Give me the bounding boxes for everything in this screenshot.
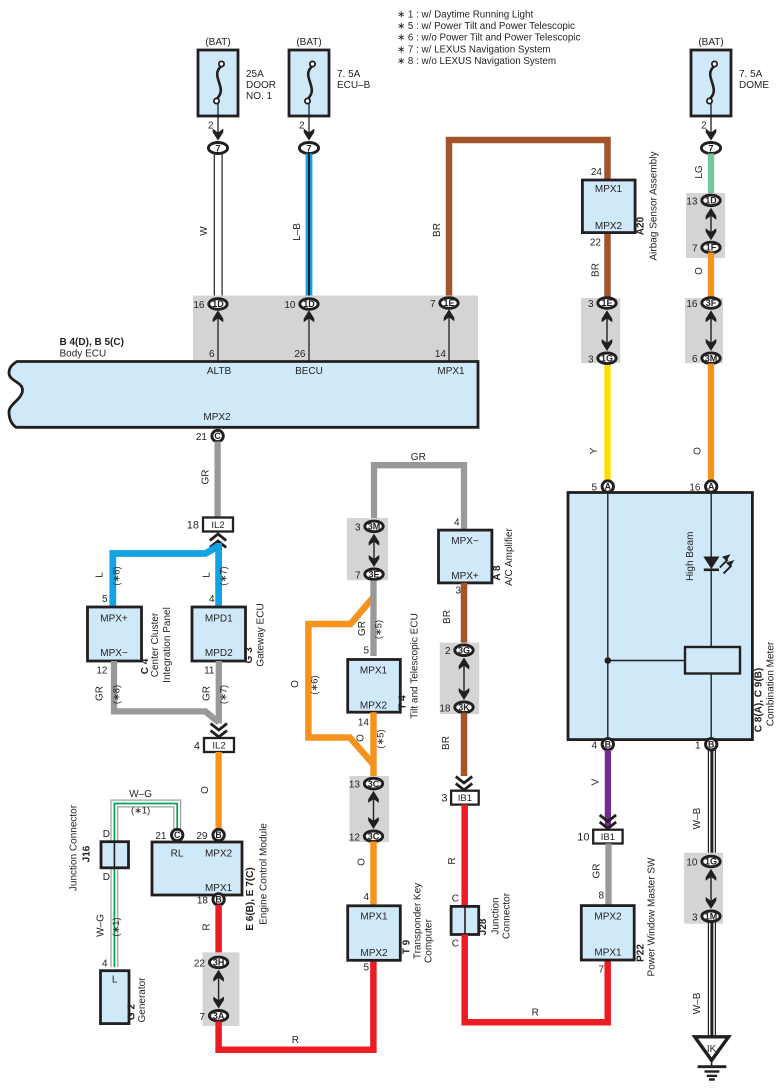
chevron marker into IB1 10 bbox=[600, 822, 616, 829]
svg-text:Junction Connector: Junction Connector bbox=[69, 804, 80, 891]
svg-text:W–B: W–B bbox=[692, 807, 703, 829]
fuse 25A DOOR NO. 1 bbox=[198, 50, 238, 116]
svg-text:3: 3 bbox=[588, 299, 594, 310]
svg-text:C: C bbox=[452, 939, 459, 950]
svg-text:4: 4 bbox=[363, 892, 369, 903]
svg-text:21: 21 bbox=[196, 432, 208, 443]
svg-text:3: 3 bbox=[588, 354, 594, 365]
svg-text:L: L bbox=[202, 572, 213, 578]
svg-text:1F: 1F bbox=[706, 243, 717, 253]
svg-text:W: W bbox=[199, 226, 210, 236]
svg-text:3K: 3K bbox=[458, 703, 470, 713]
svg-text:3M: 3M bbox=[705, 353, 718, 363]
ECU box E6(B) E7(C) Engine Control Module bbox=[172, 829, 183, 840]
ECU box P22 Power Window Master SW bbox=[581, 906, 634, 960]
wire R (ECM MPX1 to connector 3H) bbox=[215, 905, 222, 956]
svg-text:RL: RL bbox=[171, 849, 184, 860]
svg-text:BR: BR bbox=[432, 223, 443, 237]
junction block IB1 pin 3 bbox=[451, 791, 479, 805]
pin 7 connector 1E on Body ECU bbox=[444, 309, 455, 321]
wire LG (fuse DOME to connector 1D) bbox=[708, 154, 714, 199]
svg-text:B: B bbox=[605, 739, 611, 749]
svg-text:3: 3 bbox=[455, 586, 461, 597]
svg-text:Power Window Master SW: Power Window Master SW bbox=[647, 857, 658, 976]
svg-text:L–B: L–B bbox=[292, 223, 303, 241]
svg-text:13: 13 bbox=[686, 196, 698, 207]
svg-text:5: 5 bbox=[102, 594, 108, 605]
svg-text:7: 7 bbox=[708, 143, 713, 153]
wire O (1F to 3F) bbox=[708, 253, 714, 299]
svg-text:22: 22 bbox=[590, 238, 602, 249]
svg-text:∗ 6 : w/o Power Tilt and Power: ∗ 6 : w/o Power Tilt and Power Telescopi… bbox=[397, 33, 580, 44]
svg-text:MPD2: MPD2 bbox=[205, 648, 233, 659]
svg-text:BECU: BECU bbox=[295, 366, 323, 377]
svg-text:18: 18 bbox=[439, 703, 451, 714]
svg-text:Engine Control Module: Engine Control Module bbox=[259, 823, 270, 925]
connector pair 3 1E / 3 1G bbox=[581, 298, 620, 363]
svg-text:1E: 1E bbox=[443, 298, 454, 308]
svg-text:Integration Panel: Integration Panel bbox=[162, 607, 173, 683]
svg-text:C: C bbox=[174, 830, 181, 840]
svg-text:Body ECU: Body ECU bbox=[60, 349, 107, 360]
svg-text:(∗8): (∗8) bbox=[112, 566, 122, 585]
svg-text:1M: 1M bbox=[705, 912, 718, 922]
svg-text:Junction: Junction bbox=[491, 897, 502, 934]
ECU box T9 Transponder Key Computer bbox=[348, 906, 401, 961]
svg-text:7: 7 bbox=[692, 244, 698, 255]
wire GR (Body ECU MPX2 to junction IL2 18) bbox=[214, 442, 220, 518]
svg-text:21: 21 bbox=[155, 831, 167, 842]
wire R (3A to T9 MPX2) bbox=[219, 957, 374, 1050]
svg-text:C: C bbox=[452, 894, 459, 905]
svg-text:8: 8 bbox=[598, 891, 604, 902]
svg-text:Computer: Computer bbox=[424, 918, 435, 963]
svg-text:ECU–B: ECU–B bbox=[337, 80, 371, 91]
svg-text:A: A bbox=[708, 482, 715, 492]
pin 1 B of Combination Meter bbox=[706, 739, 717, 750]
svg-text:4: 4 bbox=[454, 518, 460, 529]
svg-text:(∗7): (∗7) bbox=[218, 685, 228, 704]
chevron marker into IL2 18 bbox=[210, 534, 226, 541]
svg-text:Airbag Sensor Assembly: Airbag Sensor Assembly bbox=[649, 152, 660, 261]
wire O (3M to Combination Meter 16 A) bbox=[708, 364, 714, 482]
svg-text:5: 5 bbox=[591, 483, 597, 494]
svg-text:IK: IK bbox=[707, 1044, 717, 1055]
wire O (IL2 4 to ECM MPX2) bbox=[215, 752, 221, 830]
connector pair 2 3G / 18 3K bbox=[440, 643, 479, 715]
svg-text:V: V bbox=[591, 778, 602, 785]
wire O (*6 bypass around T4) bbox=[308, 597, 373, 765]
svg-text:(BAT): (BAT) bbox=[698, 37, 723, 48]
svg-text:IL2: IL2 bbox=[212, 741, 225, 752]
wire BR (A8 MPX+ to connector 3G) bbox=[461, 583, 468, 645]
ECU box C4 Center Cluster Integration Panel bbox=[88, 607, 142, 661]
svg-text:W–G: W–G bbox=[96, 914, 107, 937]
svg-text:MPX2: MPX2 bbox=[203, 412, 231, 423]
svg-text:12: 12 bbox=[349, 832, 361, 843]
wire L-B (fuse ECU-B to Body ECU) bbox=[306, 154, 313, 299]
svg-text:7: 7 bbox=[215, 143, 220, 153]
svg-text:3E: 3E bbox=[368, 570, 379, 580]
svg-text:Gateway ECU: Gateway ECU bbox=[255, 603, 266, 666]
svg-text:14: 14 bbox=[358, 718, 370, 729]
svg-text:∗ 7 : w/ LEXUS Navigation Syst: ∗ 7 : w/ LEXUS Navigation System bbox=[397, 44, 551, 55]
wire R (IB1 3 to J28) bbox=[461, 805, 468, 907]
svg-text:MPX−: MPX− bbox=[100, 648, 128, 659]
svg-text:O: O bbox=[290, 680, 301, 688]
svg-text:W–B: W–B bbox=[692, 992, 703, 1014]
svg-text:IL2: IL2 bbox=[211, 520, 224, 531]
svg-text:Connector: Connector bbox=[502, 892, 513, 939]
svg-text:ALTB: ALTB bbox=[207, 366, 232, 377]
internal wiring of Combination Meter bbox=[607, 494, 609, 661]
svg-text:4: 4 bbox=[209, 594, 215, 605]
svg-text:Generator: Generator bbox=[137, 977, 148, 1023]
svg-text:7. 5A: 7. 5A bbox=[337, 69, 361, 80]
svg-text:DOME: DOME bbox=[739, 80, 769, 91]
svg-text:10: 10 bbox=[284, 300, 296, 311]
pin 16 connector 1D on Body ECU bbox=[213, 310, 224, 322]
svg-text:5: 5 bbox=[363, 963, 369, 974]
svg-text:T 4: T 4 bbox=[398, 695, 409, 710]
connector pair 22 3H / 7 3A bbox=[203, 952, 240, 1026]
svg-text:29: 29 bbox=[196, 831, 208, 842]
svg-text:(∗5): (∗5) bbox=[374, 620, 384, 639]
wire W-B (1M to ground IK) bbox=[707, 921, 709, 1037]
svg-text:(∗5): (∗5) bbox=[376, 729, 386, 748]
svg-text:GR: GR bbox=[592, 864, 603, 879]
svg-text:MPX1: MPX1 bbox=[437, 366, 465, 377]
svg-text:NO. 1: NO. 1 bbox=[246, 91, 273, 102]
svg-text:High Beam: High Beam bbox=[685, 532, 696, 581]
svg-text:O: O bbox=[200, 786, 211, 794]
svg-text:3F: 3F bbox=[706, 298, 717, 308]
wire L (IL2 to C4 and G3) bbox=[113, 546, 219, 607]
svg-text:(∗7): (∗7) bbox=[218, 566, 228, 585]
ECU box G3 Gateway ECU bbox=[192, 607, 246, 661]
wire GR (connector 3M to A8 MPX-) bbox=[374, 465, 464, 531]
wire O (3C to T9 MPX1) bbox=[370, 842, 377, 907]
gray connector band above Body ECU bbox=[193, 296, 478, 362]
svg-text:MPX−: MPX− bbox=[451, 536, 479, 547]
svg-text:DOOR: DOOR bbox=[246, 80, 276, 91]
svg-text:O: O bbox=[357, 858, 368, 866]
svg-text:A/C Amplifier: A/C Amplifier bbox=[504, 527, 515, 585]
ground IK bbox=[695, 1037, 729, 1061]
wire W-B (Combination Meter 1 B to connector 1G) bbox=[707, 750, 709, 856]
svg-text:12: 12 bbox=[96, 666, 108, 677]
svg-text:MPX2: MPX2 bbox=[594, 912, 622, 923]
chevron marker into IL2 4 bbox=[211, 731, 227, 738]
svg-text:16: 16 bbox=[689, 483, 701, 494]
svg-text:W–G: W–G bbox=[129, 789, 152, 800]
svg-text:3C: 3C bbox=[368, 779, 380, 789]
pin 16 A of Combination Meter bbox=[706, 481, 717, 492]
svg-text:R: R bbox=[532, 1008, 539, 1019]
svg-text:MPX2: MPX2 bbox=[360, 948, 388, 959]
svg-text:GR: GR bbox=[201, 470, 212, 485]
wire GR (*5 3E to T4 MPX1) bbox=[370, 581, 376, 657]
connector pair 13 3C / 12 3C bbox=[350, 776, 390, 842]
svg-text:4: 4 bbox=[102, 959, 108, 970]
svg-text:3: 3 bbox=[355, 522, 361, 533]
chevron marker into IB1 3 bbox=[456, 784, 472, 791]
pin 10 connector 1D on Body ECU bbox=[304, 310, 315, 322]
svg-text:B 4(D), B 5(C): B 4(D), B 5(C) bbox=[60, 337, 124, 348]
svg-text:∗ 1 : w/ Daytime Running Light: ∗ 1 : w/ Daytime Running Light bbox=[397, 9, 533, 20]
svg-text:MPD1: MPD1 bbox=[205, 614, 233, 625]
svg-text:2: 2 bbox=[445, 646, 451, 657]
svg-text:Tilt and Telescopic ECU: Tilt and Telescopic ECU bbox=[410, 613, 421, 719]
connector pair 13 1D / 7 1F bbox=[686, 193, 725, 258]
svg-text:26: 26 bbox=[294, 349, 306, 360]
svg-text:BR: BR bbox=[591, 263, 602, 277]
wire W-G (ECM RL to J16 to G2) bbox=[111, 800, 181, 967]
svg-text:IB1: IB1 bbox=[458, 793, 472, 804]
svg-text:R: R bbox=[447, 857, 458, 864]
svg-text:O: O bbox=[356, 734, 367, 742]
svg-text:A 8: A 8 bbox=[492, 565, 503, 581]
svg-text:B: B bbox=[215, 895, 221, 905]
fuse 7.5A DOME bbox=[691, 50, 731, 116]
svg-text:3M: 3M bbox=[368, 522, 381, 532]
svg-text:B: B bbox=[708, 739, 714, 749]
svg-text:MPX1: MPX1 bbox=[595, 184, 623, 195]
ECU box T4 Tilt and Telescopic ECU bbox=[348, 660, 401, 713]
wire BR (3K to junction IB1 3) bbox=[461, 713, 468, 776]
svg-text:3: 3 bbox=[692, 912, 698, 923]
svg-text:Combination Meter: Combination Meter bbox=[766, 641, 777, 726]
pin 4 B of Combination Meter bbox=[602, 739, 613, 750]
svg-text:1E: 1E bbox=[601, 298, 612, 308]
svg-text:5: 5 bbox=[363, 646, 369, 657]
svg-text:MPX2: MPX2 bbox=[360, 701, 388, 712]
svg-text:3H: 3H bbox=[213, 958, 225, 968]
svg-text:7: 7 bbox=[355, 570, 361, 581]
wire O (*5 T4 MPX2 to connector 3C) bbox=[370, 712, 377, 778]
svg-text:GR: GR bbox=[357, 621, 368, 636]
svg-text:7: 7 bbox=[306, 143, 311, 153]
svg-text:R: R bbox=[292, 1035, 299, 1046]
wire V (Combination Meter 4 B to junction IB1 10) bbox=[605, 750, 611, 827]
svg-text:25A: 25A bbox=[246, 69, 264, 80]
wire R (J28 to P22 MPX1) bbox=[465, 935, 608, 1023]
fuse 7.5A ECU-B bbox=[289, 50, 329, 116]
wire BR (A20 MPX1 loop to Body ECU) bbox=[449, 140, 608, 298]
junction block IL2 pin 4 bbox=[204, 738, 234, 752]
svg-text:1: 1 bbox=[695, 740, 701, 751]
svg-text:7: 7 bbox=[430, 299, 436, 310]
pin 5 A of Combination Meter bbox=[602, 481, 613, 492]
junction block IB1 pin 10 bbox=[593, 830, 622, 844]
svg-text:BR: BR bbox=[441, 736, 452, 750]
svg-text:MPX2: MPX2 bbox=[205, 849, 233, 860]
wire Y (connector 1G to Combination Meter 5 A) bbox=[604, 364, 610, 482]
svg-text:11: 11 bbox=[204, 666, 215, 677]
svg-text:O: O bbox=[694, 267, 705, 275]
ECU box C8(A) C9(B) Combination Meter bbox=[568, 493, 752, 740]
junction connector J16 bbox=[101, 842, 129, 868]
svg-text:Transponder Key: Transponder Key bbox=[413, 883, 424, 959]
svg-text:L: L bbox=[112, 975, 118, 986]
svg-text:A20: A20 bbox=[636, 216, 647, 235]
svg-text:(BAT): (BAT) bbox=[296, 37, 321, 48]
wire BR (A20 MPX2 down to connector 1E) bbox=[604, 233, 611, 298]
svg-text:GR: GR bbox=[202, 686, 213, 701]
svg-text:BR: BR bbox=[442, 610, 453, 624]
svg-text:10: 10 bbox=[686, 858, 698, 869]
svg-text:(∗1): (∗1) bbox=[131, 806, 150, 816]
svg-text:1D: 1D bbox=[705, 196, 717, 206]
svg-text:10: 10 bbox=[577, 832, 589, 844]
svg-text:J16: J16 bbox=[82, 845, 93, 862]
svg-text:3A: 3A bbox=[213, 1011, 225, 1021]
svg-text:3G: 3G bbox=[458, 645, 470, 655]
svg-text:MPX1: MPX1 bbox=[360, 912, 388, 923]
svg-text:Y: Y bbox=[589, 447, 600, 454]
svg-text:7: 7 bbox=[199, 1012, 205, 1023]
svg-text:R: R bbox=[201, 923, 212, 930]
svg-text:1G: 1G bbox=[705, 857, 717, 867]
svg-text:MPX1: MPX1 bbox=[360, 666, 388, 677]
svg-text:MPX+: MPX+ bbox=[100, 614, 128, 625]
svg-text:B: B bbox=[215, 830, 221, 840]
svg-text:GR: GR bbox=[95, 686, 106, 701]
svg-text:4: 4 bbox=[591, 740, 597, 751]
svg-text:(BAT): (BAT) bbox=[205, 37, 230, 48]
svg-text:(∗1): (∗1) bbox=[111, 917, 121, 936]
svg-text:G 3: G 3 bbox=[244, 647, 255, 664]
connector pair 3 3M / 7 3E bbox=[347, 518, 388, 580]
svg-text:IB1: IB1 bbox=[601, 832, 615, 843]
svg-text:22: 22 bbox=[194, 958, 206, 969]
wire GR (IB1 10 to P22 MPX2) bbox=[605, 844, 611, 907]
svg-text:C 8(A), C 9(B): C 8(A), C 9(B) bbox=[754, 668, 765, 732]
svg-text:(∗6): (∗6) bbox=[310, 675, 320, 694]
svg-text:6: 6 bbox=[692, 354, 698, 365]
svg-text:4: 4 bbox=[194, 741, 200, 753]
svg-text:C: C bbox=[214, 431, 221, 441]
junction connector J28 bbox=[451, 906, 479, 934]
svg-text:16: 16 bbox=[193, 300, 205, 311]
ECU box Body ECU B4(D) B5(C) bbox=[9, 362, 478, 428]
svg-text:14: 14 bbox=[435, 349, 447, 360]
svg-text:7: 7 bbox=[598, 965, 604, 976]
svg-text:1D: 1D bbox=[212, 299, 224, 309]
svg-text:18: 18 bbox=[187, 520, 199, 532]
svg-text:3: 3 bbox=[441, 793, 447, 805]
svg-text:L: L bbox=[95, 572, 106, 578]
svg-text:P22: P22 bbox=[636, 944, 647, 962]
svg-text:J28: J28 bbox=[478, 918, 489, 935]
svg-text:E 6(B), E 7(C): E 6(B), E 7(C) bbox=[245, 867, 256, 930]
svg-text:18: 18 bbox=[197, 896, 209, 907]
wire W (fuse DOOR to Body ECU) bbox=[213, 154, 215, 299]
internal resistor block of Combination Meter bbox=[685, 647, 740, 674]
high beam indicator LED bbox=[703, 557, 719, 570]
connector pair 10 1G / 3 1M bbox=[684, 853, 723, 924]
svg-text:24: 24 bbox=[591, 167, 603, 178]
svg-text:MPX1: MPX1 bbox=[594, 948, 622, 959]
svg-text:O: O bbox=[693, 447, 704, 455]
svg-text:MPX2: MPX2 bbox=[595, 221, 623, 232]
svg-text:6: 6 bbox=[209, 349, 215, 360]
svg-text:Center Cluster: Center Cluster bbox=[150, 612, 161, 677]
generator G2 bbox=[101, 971, 130, 1024]
svg-text:1G: 1G bbox=[601, 354, 613, 364]
svg-text:GR: GR bbox=[411, 452, 426, 463]
svg-text:13: 13 bbox=[349, 780, 361, 791]
svg-text:3C: 3C bbox=[368, 832, 380, 842]
connector pair 16 3F / 6 3M bbox=[685, 298, 723, 363]
ECU box A20 Airbag Sensor Assembly bbox=[582, 180, 635, 233]
svg-text:D: D bbox=[103, 829, 110, 840]
svg-text:D: D bbox=[103, 872, 110, 883]
svg-text:1D: 1D bbox=[303, 299, 315, 309]
svg-text:7. 5A: 7. 5A bbox=[739, 69, 763, 80]
svg-text:16: 16 bbox=[686, 299, 698, 310]
svg-text:A: A bbox=[605, 482, 612, 492]
svg-text:(∗8): (∗8) bbox=[112, 685, 122, 704]
svg-text:G 2: G 2 bbox=[127, 1004, 138, 1021]
svg-text:∗ 5 : w/ Power Tilt and Power: ∗ 5 : w/ Power Tilt and Power Telescopic bbox=[397, 21, 575, 32]
svg-text:T 9: T 9 bbox=[402, 939, 413, 954]
svg-text:LG: LG bbox=[694, 165, 705, 179]
svg-text:∗ 8 : w/o LEXUS Navigation Sys: ∗ 8 : w/o LEXUS Navigation System bbox=[397, 56, 556, 67]
svg-text:MPX+: MPX+ bbox=[451, 571, 479, 582]
junction block IL2 pin 18 bbox=[203, 518, 233, 532]
